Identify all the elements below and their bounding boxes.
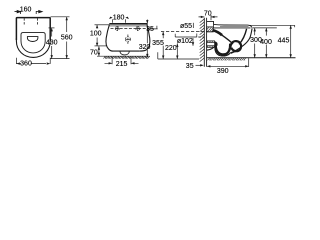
trap black [213, 30, 223, 35]
dim 560 right [51, 16, 70, 18]
hole crosses [115, 26, 119, 30]
dim 390 [248, 58, 250, 67]
svg-text:560: 560 [61, 34, 73, 41]
dim 160 top [15, 10, 43, 14]
svg-text:430: 430 [46, 39, 58, 46]
dim 355 [162, 32, 164, 59]
dashed hole line [111, 28, 147, 30]
bowl body [207, 45, 231, 56]
floor [207, 57, 296, 59]
dim 100 left [95, 24, 110, 26]
svg-text:320: 320 [139, 44, 151, 51]
bottom bump [120, 51, 129, 55]
inlet stub hatched [207, 27, 213, 32]
svg-text:400: 400 [260, 39, 272, 46]
ext lines right [249, 25, 295, 27]
svg-text:100: 100 [90, 31, 102, 38]
dim 220 [176, 43, 178, 59]
svg-text:35: 35 [146, 26, 154, 33]
svg-text:35: 35 [186, 63, 194, 70]
svg-text:ø55: ø55 [180, 23, 192, 30]
o55 axis dashed [161, 31, 213, 33]
dashed verticals [24, 18, 37, 26]
svg-text:355: 355 [152, 40, 164, 47]
svg-text:70: 70 [90, 49, 98, 56]
svg-text:215: 215 [116, 61, 128, 68]
seat top and front [214, 24, 253, 28]
dim 360 bottom [16, 58, 50, 64]
hatch band [103, 56, 149, 58]
floor ext left [158, 52, 199, 59]
center cross [127, 35, 129, 45]
dim 400 [265, 28, 267, 58]
inner seat [21, 33, 45, 53]
dim 70 left [98, 46, 100, 56]
svg-text:70: 70 [204, 10, 212, 17]
dim 320 right [146, 20, 148, 58]
svg-text:ø102: ø102 [177, 38, 193, 45]
dim 445 [290, 25, 292, 57]
o102 label [175, 36, 194, 38]
svg-text:220: 220 [165, 45, 177, 52]
water cup [27, 37, 38, 42]
svg-text:360: 360 [20, 60, 32, 67]
wall [204, 18, 206, 67]
back top block [207, 21, 214, 24]
svg-text:180: 180 [113, 15, 125, 22]
top edge [109, 23, 147, 25]
dim 35 (middle) [148, 26, 158, 29]
svg-text:160: 160 [20, 7, 32, 14]
dim 430 right [49, 27, 55, 29]
svg-text:445: 445 [278, 37, 290, 44]
outer body outline [16, 18, 50, 40]
body sides [106, 25, 113, 51]
dim 300 [254, 28, 256, 58]
drain stub hatched [207, 41, 215, 47]
svg-text:390: 390 [217, 68, 229, 75]
dim 215 [112, 57, 131, 64]
